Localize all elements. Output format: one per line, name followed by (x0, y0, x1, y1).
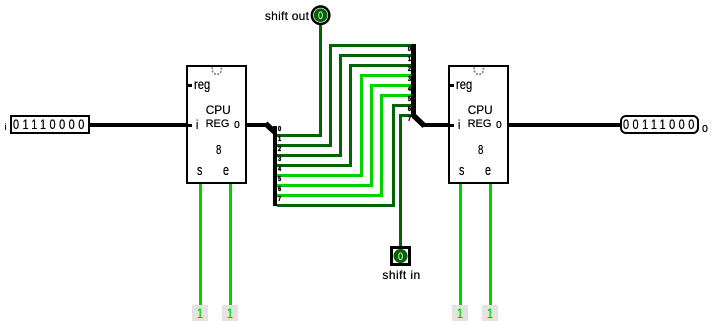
svg-text:0: 0 (398, 251, 403, 263)
svg-text:0: 0 (318, 10, 323, 22)
